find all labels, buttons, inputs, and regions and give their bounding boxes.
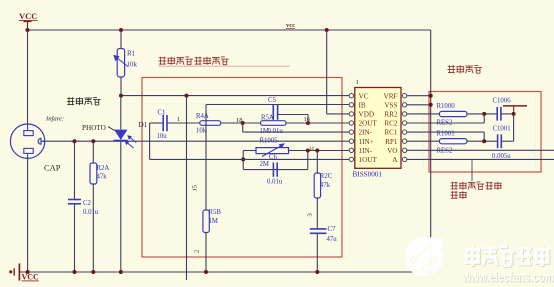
- wire right rail x430: [430, 30, 432, 272]
- svg-text:VCC: VCC: [22, 273, 40, 282]
- wire R1000 to C1006: [467, 113, 497, 115]
- capacitor C5: [273, 105, 277, 120]
- svg-text:2M: 2M: [260, 161, 269, 168]
- wire corner drop to 1OUT row: [149, 123, 151, 159]
- pin 1IN- left: [349, 148, 353, 152]
- title signal-amplify-filter circuit: [158, 57, 228, 65]
- wire C5 down to node16: [307, 115, 309, 124]
- wire node18 down: [242, 123, 244, 132]
- svg-text:1: 1: [356, 79, 359, 86]
- wire left rail upper: [27, 30, 29, 124]
- label guangmin-dianzu (photo resistor): [67, 97, 101, 105]
- op-amp IC U1 BISS0001: [355, 88, 401, 169]
- svg-text:10u: 10u: [157, 133, 168, 140]
- capacitor C1001: [498, 134, 502, 148]
- svg-text:0.01u: 0.01u: [268, 128, 284, 135]
- resistor R2C: [314, 151, 320, 229]
- resistor R4A: [200, 121, 221, 126]
- junction R2A gnd: [91, 270, 95, 274]
- leader repeat-trigger: [471, 160, 473, 181]
- wire R4A to R5A: [221, 122, 261, 124]
- svg-text:C1: C1: [158, 110, 166, 117]
- junction 1OUT row tap: [241, 157, 245, 161]
- svg-text:R2A: R2A: [97, 165, 110, 172]
- svg-text:VO: VO: [387, 147, 397, 155]
- svg-text:10k: 10k: [127, 61, 138, 69]
- svg-text:VCC: VCC: [19, 11, 37, 21]
- svg-text:RC2: RC2: [384, 120, 398, 128]
- delay circuit box: [429, 92, 541, 173]
- svg-text:0.01u: 0.01u: [83, 209, 99, 216]
- svg-text:R1000: R1000: [437, 103, 456, 110]
- wire node B down to C1001: [513, 114, 515, 141]
- resistor R5A: [261, 121, 287, 126]
- svg-text:2: 2: [194, 250, 201, 253]
- wire C1 to R4A: [167, 122, 200, 124]
- wire C6 branch: [243, 169, 308, 171]
- svg-text:R1: R1: [127, 50, 136, 58]
- svg-text:R1001: R1001: [437, 131, 455, 138]
- wire 1OUT row: [150, 158, 350, 160]
- svg-text:15: 15: [192, 185, 199, 192]
- svg-text:PHOTO: PHOTO: [82, 124, 106, 132]
- wire C1006 to node B: [501, 113, 514, 115]
- svg-text:0.01u: 0.01u: [267, 179, 283, 186]
- power port VCC bottom-left: [9, 263, 39, 281]
- wire ground bus: [20, 271, 431, 273]
- svg-text:C2: C2: [83, 200, 92, 207]
- wire C1001 right: [501, 140, 513, 142]
- svg-text:R2C: R2C: [320, 173, 333, 180]
- junction R2C top: [315, 149, 319, 153]
- resistor R1 (photo): [113, 30, 128, 96]
- svg-text:C5: C5: [268, 97, 277, 104]
- pin 1IN+ left: [349, 139, 353, 143]
- capacitor C1006: [497, 107, 501, 121]
- wire RC1 down to node D: [483, 132, 485, 141]
- svg-text:C1001: C1001: [493, 126, 511, 133]
- capacitor C6: [273, 162, 277, 176]
- svg-text:2IN-: 2IN-: [359, 129, 373, 137]
- pin VSS right: [402, 103, 406, 107]
- wire left rail lower: [27, 158, 29, 272]
- wire C6 up to node: [307, 151, 309, 170]
- svg-text:R5B: R5B: [209, 209, 222, 216]
- svg-text:47k: 47k: [320, 182, 331, 189]
- junction R1 top: [119, 28, 123, 32]
- svg-text:vcc: vcc: [286, 22, 295, 29]
- svg-text:IB: IB: [359, 101, 366, 109]
- svg-text:1IN+: 1IN+: [359, 138, 374, 146]
- pin VRF right: [402, 94, 406, 98]
- leader PHOTO arrow: [108, 127, 115, 131]
- pin RC1 right: [402, 130, 406, 134]
- svg-text:2OUT: 2OUT: [359, 120, 378, 128]
- svg-text:R4A: R4A: [196, 113, 209, 120]
- svg-text:D1: D1: [139, 121, 148, 129]
- wire R1005 left drop: [242, 151, 244, 170]
- pin 2OUT left: [349, 121, 353, 125]
- wire A row out: [407, 158, 554, 160]
- svg-text:1OUT: 1OUT: [359, 156, 378, 164]
- junction node A: [482, 112, 486, 116]
- svg-text:1M: 1M: [209, 218, 218, 225]
- power bar vcc (delay): [503, 106, 527, 112]
- pin RR2 right: [402, 112, 406, 116]
- svg-text:47u: 47u: [327, 236, 338, 243]
- junction node16: [306, 121, 310, 125]
- junction VRF rail: [429, 94, 433, 98]
- junction C2 gnd: [73, 270, 77, 274]
- junction node B: [512, 112, 516, 116]
- junction R2A top: [91, 139, 95, 143]
- wire R1005 to 1IN-: [289, 150, 350, 152]
- wire VO row out: [407, 149, 554, 151]
- svg-text:14: 14: [309, 147, 314, 152]
- capacitor C1: [163, 115, 167, 131]
- watermark logo circle: [404, 237, 444, 277]
- wire to R1005: [243, 150, 256, 152]
- junction node D: [482, 139, 486, 143]
- svg-text:C7: C7: [328, 226, 337, 233]
- power port VCC top-left: [19, 11, 37, 30]
- photodiode D1 PHOTO: [114, 96, 137, 272]
- svg-text:RP1: RP1: [385, 138, 398, 146]
- lamp / infrared sensor CAP: [10, 124, 44, 158]
- signal amplifier filter box: [142, 78, 342, 258]
- junction C6 right: [306, 149, 310, 153]
- svg-text:10k: 10k: [196, 128, 207, 135]
- title underline: [158, 65, 290, 67]
- wire RC1 row: [407, 131, 484, 133]
- resistor R1001: [439, 139, 467, 144]
- junction top-left: [26, 28, 30, 32]
- label repeatable-trigger line2: [450, 191, 466, 199]
- wire RC2 up to node A: [483, 114, 485, 123]
- pin VC left: [349, 94, 353, 98]
- junction left rail gnd: [26, 270, 30, 274]
- wire vcc top bus: [28, 29, 431, 31]
- wire 1OUT-up to C1: [150, 122, 164, 124]
- wire R1001 to C1001: [467, 140, 497, 142]
- pin IB left: [349, 103, 353, 107]
- junction C7 gnd: [315, 270, 319, 274]
- wire C5 right lead: [278, 114, 308, 116]
- wire long drop x187: [186, 96, 188, 280]
- wire R5A to 2OUT: [286, 122, 349, 124]
- wire to VDD pin: [327, 113, 350, 115]
- svg-text:BISS0001: BISS0001: [353, 171, 383, 179]
- wire RC2 row: [407, 122, 484, 124]
- pin 1OUT left: [349, 157, 353, 161]
- svg-text:VSS: VSS: [384, 101, 397, 109]
- resistor R5B: [203, 210, 209, 233]
- junction vcc drop to VDD: [325, 28, 329, 32]
- svg-text:VRF: VRF: [384, 92, 398, 100]
- junction x187 drop: [185, 94, 189, 98]
- wire RP1 to R1001: [407, 140, 440, 142]
- wire vcc to VDD drop: [326, 30, 328, 114]
- watermark text dianzifashaoyou: [466, 247, 550, 267]
- pin RP1 right: [402, 139, 406, 143]
- pin 2IN- left: [349, 130, 353, 134]
- svg-text:1IN-: 1IN-: [359, 147, 373, 155]
- junction C2 top: [73, 139, 77, 143]
- resistor R2A: [90, 141, 97, 272]
- svg-text:R1005: R1005: [260, 137, 279, 144]
- title delay circuit: [447, 65, 482, 73]
- wire 2IN- row: [243, 131, 350, 133]
- junction photo gnd: [119, 270, 123, 274]
- capacitor C2: [68, 141, 81, 272]
- junction VSS rail: [429, 103, 433, 107]
- pin VO right: [402, 148, 406, 152]
- wire R5B upper: [205, 123, 207, 210]
- junction right rail gnd: [429, 270, 433, 274]
- wire RR2 to R1000: [407, 113, 440, 115]
- wire VSS to gnd rail: [407, 104, 431, 106]
- svg-text:3: 3: [307, 213, 314, 216]
- pin RC2 right: [402, 121, 406, 125]
- svg-text:A: A: [392, 156, 398, 164]
- svg-text:C1006: C1006: [493, 98, 512, 105]
- wire VC row: [121, 95, 349, 97]
- junction R5B gnd: [204, 270, 208, 274]
- label repeatable-trigger line1: [450, 182, 501, 190]
- junction R1 bottom / photo top: [119, 94, 123, 98]
- wire sensor row to 1IN+: [42, 140, 349, 142]
- wire VRF to vcc rail: [407, 95, 431, 97]
- junction node18: [241, 121, 245, 125]
- svg-text:RR2: RR2: [384, 111, 398, 119]
- svg-text:1: 1: [177, 116, 180, 123]
- svg-text:VDD: VDD: [359, 111, 375, 119]
- svg-text:47k: 47k: [97, 174, 108, 181]
- capacitor C7: [310, 229, 327, 272]
- resistor R1000: [439, 111, 467, 116]
- wire R5B lower: [205, 233, 207, 273]
- svg-text:R5A: R5A: [261, 114, 274, 121]
- wire IB corner down to R4A: [205, 105, 207, 124]
- svg-text:Infare:: Infare:: [45, 116, 64, 123]
- svg-text:CAP: CAP: [44, 163, 61, 173]
- svg-text:VC: VC: [359, 92, 369, 100]
- pin VDD left: [349, 112, 353, 116]
- potentiometer R1005: [256, 143, 289, 156]
- svg-text:www.elecfans.com: www.elecfans.com: [462, 270, 554, 285]
- wire IB row: [206, 104, 349, 106]
- pin A right: [402, 157, 406, 161]
- svg-text:RC1: RC1: [384, 129, 398, 137]
